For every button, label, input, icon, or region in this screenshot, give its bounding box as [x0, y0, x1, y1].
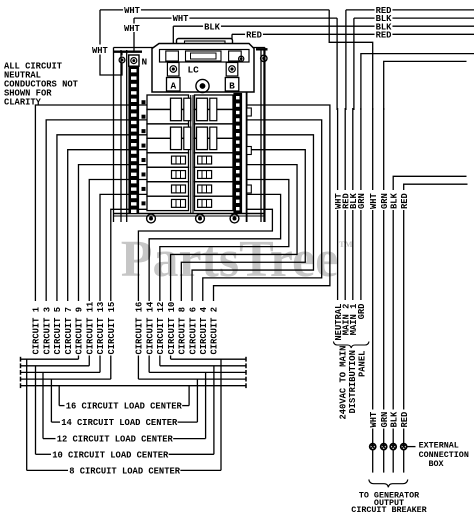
svg-text:12 CIRCUIT LOAD CENTER: 12 CIRCUIT LOAD CENTER [57, 435, 174, 445]
svg-text:TM: TM [339, 239, 353, 249]
svg-text:B: B [229, 80, 235, 91]
svg-text:8 CIRCUIT LOAD CENTER: 8 CIRCUIT LOAD CENTER [69, 467, 181, 477]
svg-text:CIRCUIT 2: CIRCUIT 2 [210, 307, 220, 355]
svg-text:RED: RED [376, 30, 392, 40]
svg-text:CIRCUIT 15: CIRCUIT 15 [107, 302, 117, 355]
svg-text:CIRCUIT 6: CIRCUIT 6 [188, 307, 198, 355]
svg-text:WHT: WHT [124, 6, 141, 16]
svg-text:CONNECTION: CONNECTION [419, 450, 469, 460]
svg-text:240VAC TO MAIN: 240VAC TO MAIN [339, 346, 349, 420]
svg-text:16 CIRCUIT LOAD CENTER: 16 CIRCUIT LOAD CENTER [66, 402, 183, 412]
svg-text:DISTRIBUTION: DISTRIBUTION [348, 350, 358, 413]
svg-text:GRD: GRD [357, 304, 367, 320]
svg-text:BLK: BLK [389, 411, 399, 428]
svg-text:LC: LC [188, 65, 200, 76]
svg-text:BOX: BOX [429, 459, 445, 469]
svg-text:N: N [142, 57, 148, 68]
svg-text:CIRCUIT BREAKER: CIRCUIT BREAKER [351, 505, 427, 515]
svg-text:BLK: BLK [204, 22, 221, 32]
svg-text:CIRCUIT 4: CIRCUIT 4 [199, 306, 209, 354]
svg-text:RED: RED [400, 412, 410, 428]
svg-text:WHT: WHT [369, 192, 379, 209]
svg-text:GRN: GRN [380, 193, 390, 209]
svg-text:14 CIRCUIT LOAD CENTER: 14 CIRCUIT LOAD CENTER [61, 418, 178, 428]
svg-text:GRN: GRN [380, 412, 390, 428]
svg-text:CIRCUIT 14: CIRCUIT 14 [145, 301, 155, 355]
svg-text:WHT: WHT [92, 46, 109, 56]
svg-text:WHT: WHT [124, 24, 141, 34]
svg-text:CIRCUIT 5: CIRCUIT 5 [53, 307, 63, 355]
svg-text:CIRCUIT 11: CIRCUIT 11 [85, 302, 95, 355]
svg-text:CIRCUIT 12: CIRCUIT 12 [156, 302, 166, 355]
svg-text:RED: RED [246, 30, 262, 40]
svg-text:RED: RED [400, 193, 410, 209]
svg-text:WHT: WHT [173, 14, 190, 24]
svg-text:WHT: WHT [369, 411, 379, 428]
svg-text:A: A [170, 80, 176, 91]
svg-text:CIRCUIT 16: CIRCUIT 16 [135, 302, 145, 355]
svg-text:CIRCUIT 9: CIRCUIT 9 [75, 307, 85, 355]
svg-text:BLK: BLK [389, 192, 399, 209]
svg-text:CIRCUIT 8: CIRCUIT 8 [178, 307, 188, 355]
svg-text:PANEL: PANEL [358, 351, 368, 377]
svg-text:CIRCUIT 13: CIRCUIT 13 [96, 302, 106, 355]
svg-text:CIRCUIT 1: CIRCUIT 1 [32, 307, 42, 355]
svg-text:CIRCUIT 3: CIRCUIT 3 [42, 307, 52, 355]
svg-text:CIRCUIT 10: CIRCUIT 10 [167, 302, 177, 355]
svg-text:GRN: GRN [357, 193, 367, 209]
svg-text:CIRCUIT 7: CIRCUIT 7 [64, 307, 74, 355]
svg-text:10 CIRCUIT LOAD CENTER: 10 CIRCUIT LOAD CENTER [52, 450, 169, 460]
svg-text:CLARITY: CLARITY [4, 98, 42, 108]
